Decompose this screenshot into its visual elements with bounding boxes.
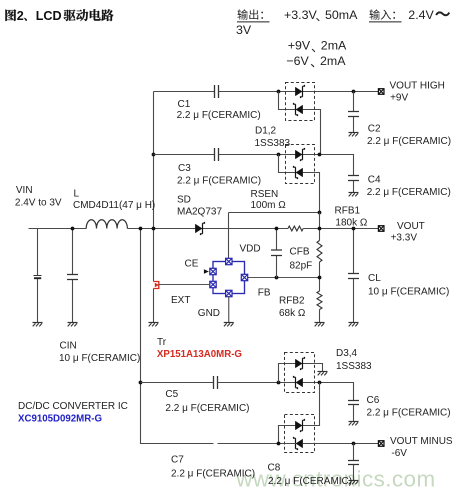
wire main rail after L xyxy=(127,228,288,230)
capacitor C3 xyxy=(215,148,219,161)
capacitor C2 column xyxy=(353,92,355,133)
svg-text:CIN: CIN xyxy=(60,341,77,352)
junction dot VDD sense xyxy=(318,211,322,215)
title 图 xyxy=(5,9,16,21)
connector EXT red xyxy=(154,282,159,289)
title 电 xyxy=(90,9,101,20)
title 动 xyxy=(76,9,88,21)
svg-text:CFB: CFB xyxy=(290,246,310,257)
svg-text:CE: CE xyxy=(185,258,199,269)
junction dot FB CFB xyxy=(275,276,279,280)
wire sub2 step xyxy=(279,155,320,213)
svg-text:XC9105D092MR-G: XC9105D092MR-G xyxy=(18,414,102,425)
ground under Tr rail xyxy=(149,322,159,324)
svg-text:10 μ F(CERAMIC): 10 μ F(CERAMIC) xyxy=(368,286,449,297)
junction dot main x320 xyxy=(318,227,322,231)
title 、 xyxy=(24,18,27,21)
svg-text:XP151A13A0MR-G: XP151A13A0MR-G xyxy=(157,349,242,360)
junction dot row4 C8 xyxy=(352,442,356,446)
svg-text:EXT: EXT xyxy=(171,295,190,306)
svg-text:82pF: 82pF xyxy=(290,260,313,271)
svg-text:C7: C7 xyxy=(171,455,184,466)
junction dot CL main xyxy=(352,227,356,231)
resistor RSEN xyxy=(288,226,303,231)
svg-text:+9V: +9V xyxy=(288,39,311,53)
svg-text:VDD: VDD xyxy=(240,243,261,254)
wire row3 mid xyxy=(218,382,297,384)
svg-text:C3: C3 xyxy=(178,163,191,174)
diode SD MA2Q737 xyxy=(195,224,202,233)
svg-text:+9V: +9V xyxy=(390,93,408,104)
svg-text:RSEN: RSEN xyxy=(251,189,279,200)
diode D1 top xyxy=(295,87,302,96)
diode D2 top xyxy=(295,150,302,159)
ground under CIN-a xyxy=(33,322,43,324)
junction dot left rail main xyxy=(152,227,156,231)
wire row4 mid xyxy=(218,443,297,445)
svg-text:CL: CL xyxy=(368,273,381,284)
capacitor C8 column xyxy=(353,444,355,481)
svg-text:2.2 μ F(CERAMIC): 2.2 μ F(CERAMIC) xyxy=(165,403,249,414)
svg-text:L: L xyxy=(74,189,80,200)
junction dot left rail row2 xyxy=(152,153,156,157)
diode D4 bottom xyxy=(296,439,303,448)
capacitor C8 plates xyxy=(348,461,359,465)
pin EXT xyxy=(210,281,216,287)
junction dot down-line main xyxy=(139,227,143,231)
svg-text:C5: C5 xyxy=(165,389,178,400)
resistor RFB1 xyxy=(317,241,322,263)
ground under C2 xyxy=(349,132,359,134)
capacitor C6 plates xyxy=(348,401,359,405)
ground under C8 xyxy=(349,480,359,482)
wire step to main xyxy=(319,213,321,241)
wire input cap2 branch xyxy=(72,229,74,323)
capacitor CIN-b plates xyxy=(67,275,78,280)
svg-text:RFB2: RFB2 xyxy=(279,295,305,306)
junction dot CFB main xyxy=(275,227,279,231)
svg-text:SD: SD xyxy=(177,195,191,206)
arrow CE input xyxy=(204,269,209,273)
svg-text:+3.3V: +3.3V xyxy=(391,232,418,243)
junction dot CIN-b xyxy=(71,227,75,231)
svg-text:2.2 μ F(CERAMIC): 2.2 μ F(CERAMIC) xyxy=(177,110,261,121)
svg-text:Tr: Tr xyxy=(157,337,167,348)
ground under IC xyxy=(224,322,234,324)
junction dot row4 xyxy=(277,442,281,446)
svg-text:VOUT MINUS: VOUT MINUS xyxy=(390,436,453,447)
capacitor CL column xyxy=(353,229,355,323)
svg-text:C8: C8 xyxy=(268,462,281,473)
capacitor CFB plates xyxy=(271,250,282,256)
svg-text:MA2Q737: MA2Q737 xyxy=(177,207,222,218)
diode D3 bottom xyxy=(296,378,303,387)
pin GND xyxy=(226,290,232,296)
junction dot row3 xyxy=(277,381,281,385)
ground under CL xyxy=(349,322,359,324)
svg-text:C2: C2 xyxy=(368,124,381,135)
svg-text:−6V: −6V xyxy=(286,54,309,68)
svg-text:2.2 μ F(CERAMIC): 2.2 μ F(CERAMIC) xyxy=(177,175,261,186)
wire sub4 left xyxy=(279,426,297,444)
wire RFB2 to ground xyxy=(319,310,321,323)
svg-text:VIN: VIN xyxy=(16,185,33,196)
junction dot row1 xyxy=(277,90,281,94)
svg-text:180k Ω: 180k Ω xyxy=(335,218,367,229)
wire row1 left xyxy=(154,91,215,93)
svg-text:C1: C1 xyxy=(178,99,191,110)
wire row2 mid xyxy=(219,154,297,156)
svg-text:GND: GND xyxy=(198,308,220,319)
capacitor CIN-a plates xyxy=(34,275,42,277)
svg-text:2: 2 xyxy=(17,9,24,23)
svg-text:D3,4: D3,4 xyxy=(336,348,358,359)
capacitor C4 plates xyxy=(348,176,359,181)
svg-text:2mA: 2mA xyxy=(320,54,346,68)
junction dot down-line row3 xyxy=(139,381,143,385)
dashed box D1,2 upper xyxy=(286,83,315,121)
svg-text:FB: FB xyxy=(258,288,271,299)
terminal VOUT HIGH xyxy=(378,89,384,95)
dashed box D1,2 lower xyxy=(286,145,315,184)
svg-text:100m Ω: 100m Ω xyxy=(251,200,287,211)
wire EXT to IC xyxy=(159,284,210,286)
capacitor C1 xyxy=(215,85,219,98)
capacitor CL plates xyxy=(348,274,359,279)
svg-text:1SS383: 1SS383 xyxy=(255,138,291,149)
resistor RFB2 xyxy=(317,291,322,310)
capacitor C5 xyxy=(214,376,218,389)
svg-text:VOUT HIGH: VOUT HIGH xyxy=(390,81,445,92)
junction dot FB right xyxy=(318,276,322,280)
wire VDD sense xyxy=(229,213,320,262)
ground under C6 xyxy=(349,421,359,423)
svg-text:LCD: LCD xyxy=(36,9,62,23)
label 输出 xyxy=(237,9,247,19)
svg-text:+3.3V: +3.3V xyxy=(284,8,317,22)
junction dot row3 step xyxy=(318,381,322,385)
wire C4 to ground xyxy=(353,181,355,193)
diode D1 bottom xyxy=(296,105,303,114)
wire step box3 to box4 xyxy=(303,383,320,426)
inductor L coil xyxy=(86,220,127,229)
dashed box D3,4 upper xyxy=(285,353,315,393)
terminal VOUT xyxy=(378,226,384,232)
wire VIN input rail xyxy=(29,228,87,230)
svg-text:D1,2: D1,2 xyxy=(255,126,277,137)
svg-text:C4: C4 xyxy=(368,175,381,186)
wire row1 right xyxy=(303,91,379,93)
wire row4 right xyxy=(303,443,379,445)
junction dot row2 xyxy=(277,153,281,157)
ground under RFB2 xyxy=(315,322,325,324)
pin FB xyxy=(241,274,247,280)
svg-text:1SS383: 1SS383 xyxy=(336,361,372,372)
wire down-line to negative pump xyxy=(141,229,214,444)
title 路 xyxy=(101,9,113,21)
dashed box D3,4 lower xyxy=(285,415,315,453)
terminal VOUT MINUS xyxy=(378,441,384,447)
title 驱 xyxy=(64,10,76,21)
op-amp U1 XC9105 body xyxy=(213,262,245,294)
svg-text:2.2 μ F(CERAMIC): 2.2 μ F(CERAMIC) xyxy=(367,187,451,198)
wire left rail xyxy=(153,92,155,323)
svg-text:3V: 3V xyxy=(236,23,252,37)
svg-text:68k Ω: 68k Ω xyxy=(279,308,306,319)
diode D4 top xyxy=(295,421,302,430)
wire input cap1 branch xyxy=(37,229,39,323)
capacitor C2 plates xyxy=(348,112,359,117)
wire C6 ground xyxy=(353,405,355,422)
svg-text:2.2 μ F(CERAMIC): 2.2 μ F(CERAMIC) xyxy=(268,476,352,487)
svg-text:VOUT: VOUT xyxy=(397,221,425,232)
wire row2 right to C4 xyxy=(303,155,354,176)
junction dot row2 step xyxy=(318,153,322,157)
svg-text:CMD4D11(47 μ H): CMD4D11(47 μ H) xyxy=(73,200,155,211)
ground under C4 xyxy=(349,192,359,194)
junction dot row1 C2 xyxy=(352,90,356,94)
diode D3 top xyxy=(295,359,302,368)
svg-text:50mA: 50mA xyxy=(325,8,358,22)
ground D3 cathode xyxy=(318,371,328,373)
svg-text:-6V: -6V xyxy=(391,448,407,459)
svg-text:DC/DC CONVERTER IC: DC/DC CONVERTER IC xyxy=(18,401,128,412)
svg-text:C6: C6 xyxy=(367,395,380,406)
svg-text:2.2 μ F(CERAMIC): 2.2 μ F(CERAMIC) xyxy=(171,469,255,480)
svg-text:2.4V: 2.4V xyxy=(408,8,434,22)
wire RFB1 to RFB2 xyxy=(319,262,321,291)
diode D2 bottom xyxy=(296,168,303,177)
wire row2 left xyxy=(154,154,215,156)
wire FB xyxy=(248,277,320,279)
svg-text:2.2 μ F(CERAMIC): 2.2 μ F(CERAMIC) xyxy=(367,407,451,418)
wire IC GND xyxy=(228,297,230,323)
wire row1 mid xyxy=(219,91,297,93)
wire row3 left xyxy=(141,382,214,384)
label 输入 xyxy=(369,9,379,19)
wire sub3 step xyxy=(279,364,323,383)
pin CE xyxy=(210,268,216,274)
wire main rail to VOUT xyxy=(303,228,378,230)
capacitor CFB column xyxy=(276,229,278,278)
pin VDD xyxy=(226,258,232,264)
svg-text:2mA: 2mA xyxy=(321,39,347,53)
ground under CIN-b xyxy=(68,322,78,324)
svg-text:2.4V to 3V: 2.4V to 3V xyxy=(15,197,62,208)
svg-text:10 μ F(CERAMIC): 10 μ F(CERAMIC) xyxy=(59,353,140,364)
wire row3 right to C6 xyxy=(303,383,354,401)
svg-text:2.2 μ F(CERAMIC): 2.2 μ F(CERAMIC) xyxy=(367,136,451,147)
wire sub1 step xyxy=(279,92,321,155)
svg-text:RFB1: RFB1 xyxy=(335,206,361,217)
